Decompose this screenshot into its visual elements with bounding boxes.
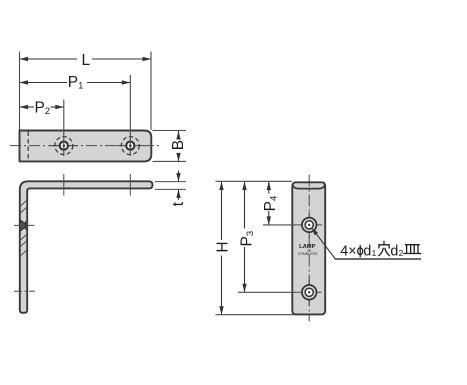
- side view L-bracket: [20, 181, 153, 312]
- extension line lower hole (P3): [238, 291, 296, 293]
- extension line P1 (through hole 2): [129, 75, 131, 156]
- svg-text:4×: 4×: [340, 243, 356, 259]
- hole 2 (top view, countersunk): [116, 137, 144, 155]
- LAMP logo stamp: [298, 244, 318, 256]
- right view plate: [292, 182, 325, 314]
- center line horizontal top view: [10, 145, 159, 147]
- dimension P3: [238, 182, 256, 293]
- svg-text:d: d: [390, 243, 398, 259]
- svg-text:1: 1: [372, 248, 377, 258]
- countersink section detail (side view hole 1): [14, 220, 35, 231]
- callout text 4xphi-d1 hole d2 countersunk: [340, 241, 421, 259]
- svg-text:STAINLESS: STAINLESS: [298, 252, 318, 256]
- svg-text:2: 2: [399, 248, 404, 258]
- svg-text:t: t: [170, 201, 187, 206]
- hole 3 (right view upper): [296, 212, 322, 238]
- hatch marks on side view leg: [20, 200, 27, 256]
- hole center ticks on side view horizontal leg: [64, 174, 131, 196]
- extension line right (L): [150, 52, 152, 131]
- lower hole center line (side view): [14, 290, 35, 292]
- dimension L: [20, 52, 152, 69]
- extension line top (right view): [216, 180, 292, 182]
- hole 4 (right view lower): [296, 279, 321, 305]
- kanji sara (countersink dish): [404, 245, 421, 254]
- vertical center line (right view): [308, 175, 310, 322]
- hole 1 (top view, countersunk): [50, 137, 78, 155]
- dimension P2: [20, 99, 64, 117]
- bend tangent line (right view): [293, 185, 325, 189]
- svg-text:d: d: [363, 243, 371, 259]
- leader line to hole callout: [312, 228, 421, 259]
- dimension P4: [262, 182, 280, 225]
- dimension t: [155, 171, 187, 207]
- kanji ana (hole): [379, 241, 390, 255]
- dimension B: [153, 131, 188, 162]
- bend line (dashed) top view: [27, 132, 29, 161]
- dimension H: [215, 182, 232, 315]
- extension line upper hole (P4): [263, 224, 296, 226]
- svg-text:L: L: [82, 52, 91, 69]
- svg-text:B: B: [170, 140, 187, 150]
- dimension P1: [20, 74, 131, 92]
- top view plate: [20, 131, 152, 162]
- svg-text:H: H: [215, 241, 232, 252]
- extension line P2 (through hole 1): [63, 100, 65, 157]
- extension line left (L/P1/P2): [19, 52, 21, 131]
- phi symbol: [358, 248, 363, 255]
- extension line bottom (right view): [216, 314, 297, 316]
